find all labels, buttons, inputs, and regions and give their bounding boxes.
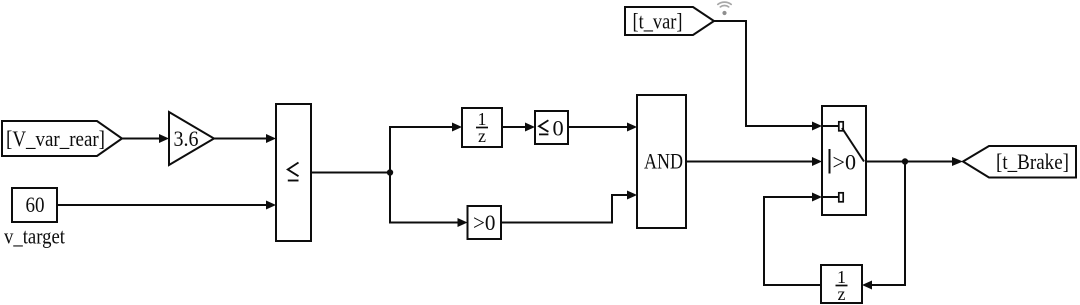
wireless icon (718, 2, 731, 15)
From block [V_var_rear] (2, 121, 122, 156)
gain block 3.6 (169, 112, 214, 165)
wire: unit delay to compare <=0 (502, 123, 535, 132)
wire: compare <=0 to AND input 1 (568, 123, 637, 132)
wire: t_var to switch input 1 (714, 21, 822, 131)
svg-text:v_target: v_target (4, 224, 65, 249)
wire: AND to switch input 2 (686, 157, 822, 166)
logical operator block AND (637, 95, 686, 228)
wire: V_var_rear to gain (122, 134, 169, 143)
constant block 60 (12, 188, 57, 222)
svg-text:[t_var]: [t_var] (633, 9, 683, 34)
Goto block [t_Brake] (963, 146, 1076, 178)
svg-text:60: 60 (26, 192, 45, 217)
compare block <=0 (535, 111, 568, 144)
svg-text:0: 0 (553, 115, 564, 140)
wire: compare >0 to AND input 2 (501, 191, 637, 223)
wire: junction to unit delay (up branch) (390, 123, 462, 173)
wire: constant 60 to relational operator input 2 (57, 201, 276, 210)
relational operator block <= (276, 104, 311, 241)
svg-text:[t_Brake]: [t_Brake] (996, 149, 1069, 174)
svg-text:z: z (838, 284, 846, 304)
svg-text:AND: AND (644, 149, 683, 174)
switch block >0 (822, 106, 866, 215)
svg-text:>0: >0 (833, 150, 857, 175)
wire: feedback unit delay to switch input 3 (764, 193, 822, 286)
junction node (387, 169, 393, 175)
svg-text:[V_var_rear]: [V_var_rear] (6, 126, 105, 151)
unit delay block 1/z (top) (462, 108, 502, 147)
wire: gain to relational operator input 1 (214, 134, 276, 143)
From block [t_var] (625, 7, 714, 35)
wire: junction to compare >0 (down branch) (390, 173, 468, 228)
svg-text:z: z (478, 126, 486, 146)
wire: feedback from junction down to unit delay (862, 162, 905, 290)
unit delay block 1/z (bottom) (821, 265, 862, 304)
compare block >0 (468, 206, 502, 239)
junction node (switch output) (902, 158, 908, 164)
svg-text:3.6: 3.6 (174, 126, 199, 151)
wire: switch output to Goto tag (866, 157, 963, 166)
wire: relational output to junction (311, 172, 390, 174)
svg-text:>0: >0 (473, 210, 496, 235)
